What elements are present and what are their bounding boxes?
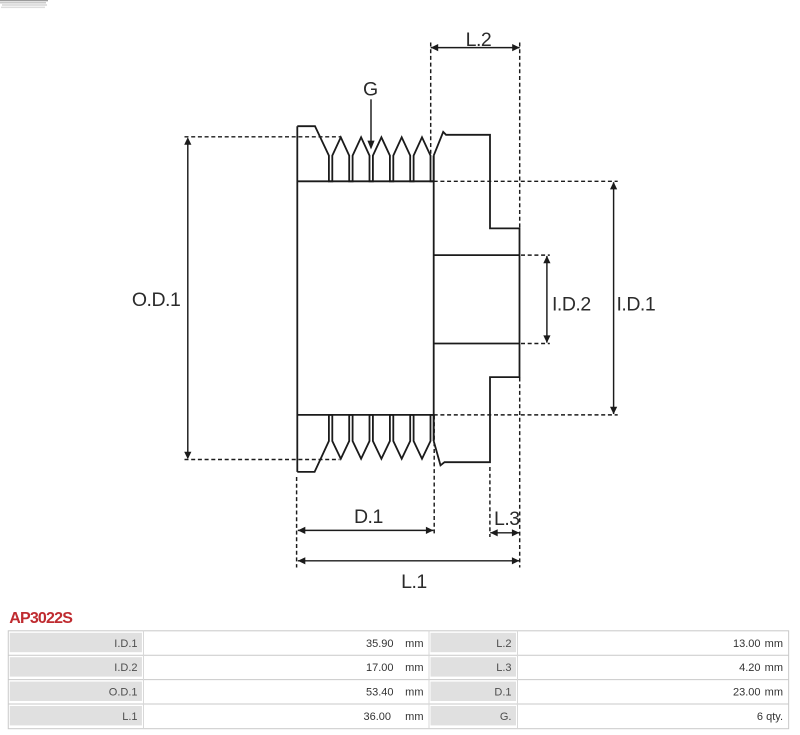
pulley top teeth profile [297,126,433,181]
svg-text:13.00: 13.00 [733,638,761,650]
I.D.2 ref dashed bottom [521,343,550,345]
I.D.2 dimension [546,256,548,343]
svg-text:mm: mm [405,662,423,674]
svg-text:6 qty.: 6 qty. [757,711,783,723]
svg-text:L.3: L.3 [496,662,511,674]
svg-text:I.D.1: I.D.1 [114,638,137,650]
O.D.1 dimension [187,139,189,459]
hub top line [434,254,520,256]
svg-text:L.1: L.1 [122,711,137,723]
D.1 L.1 left extension [296,477,298,568]
svg-text:17.00: 17.00 [366,662,394,674]
O.D. ref dashed bottom [185,459,340,461]
svg-text:mm: mm [405,711,423,723]
right extension lower [519,378,521,568]
L.1 dimension [298,560,520,562]
svg-text:D.1: D.1 [354,506,383,528]
svg-text:D.1: D.1 [494,687,511,699]
svg-text:G: G [363,78,378,100]
svg-text:L.2: L.2 [496,638,511,650]
I.D.1 ref dashed bottom [434,414,618,416]
L.3 left extension [489,467,491,537]
left body edge [296,126,298,472]
D.1 dimension [298,529,434,531]
svg-text:mm: mm [765,687,783,699]
svg-text:O.D.1: O.D.1 [109,687,138,699]
rim base line top [297,180,433,182]
svg-text:23.00: 23.00 [733,687,761,699]
svg-text:L.3: L.3 [494,508,520,530]
svg-text:36.00: 36.00 [363,711,391,723]
svg-text:I.D.1: I.D.1 [617,294,656,316]
svg-text:G.: G. [500,711,512,723]
svg-text:4.20: 4.20 [739,662,760,674]
svg-text:L.2: L.2 [466,29,492,51]
dimensions table [8,631,788,729]
L.3 dimension [490,532,519,534]
rim base line bottom [297,414,433,416]
O.D. ref dashed top [185,136,341,138]
body right edge [433,156,435,441]
right extension upper [519,43,521,229]
G arrow [370,99,372,147]
pulley bottom teeth profile [297,415,433,472]
svg-text:O.D.1: O.D.1 [132,289,180,311]
svg-text:I.D.2: I.D.2 [114,662,137,674]
svg-text:mm: mm [765,662,783,674]
svg-text:I.D.2: I.D.2 [552,294,591,316]
svg-text:mm: mm [405,687,423,699]
svg-text:53.40: 53.40 [366,687,394,699]
right flange top slope and edge [434,132,520,465]
D.1 right extension [433,416,435,537]
cropped watermark fragment top-left [0,0,48,8]
hub bottom line [434,343,520,345]
svg-text:35.90: 35.90 [366,638,394,650]
I.D.2 ref dashed top [521,254,550,256]
L.2 left extension [430,43,432,155]
svg-text:mm: mm [765,638,783,650]
L.2 dimension [431,47,520,49]
svg-text:mm: mm [405,638,423,650]
svg-text:L.1: L.1 [401,571,427,593]
svg-text:AP3022S: AP3022S [9,610,73,627]
I.D.1 ref dashed top [434,180,618,182]
I.D.1 dimension [613,182,615,414]
